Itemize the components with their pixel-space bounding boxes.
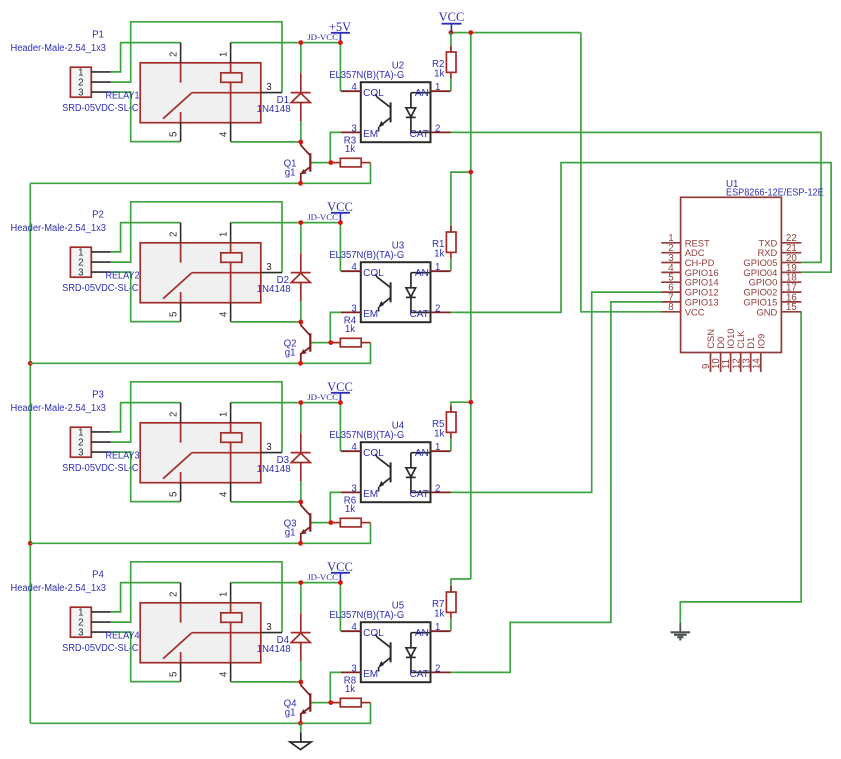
svg-text:4: 4 [219,491,230,497]
svg-text:3: 3 [78,628,83,639]
svg-text:3: 3 [266,622,271,633]
resistor R3 1k [331,162,340,164]
svg-text:Header-Male-2.54_1x3: Header-Male-2.54_1x3 [11,403,107,414]
svg-text:JD-VCC: JD-VCC [307,392,338,402]
svg-text:SRD-05VDC-SL-C: SRD-05VDC-SL-C [62,643,139,654]
svg-text:1N4148: 1N4148 [257,284,291,295]
svg-text:1: 1 [435,262,440,273]
svg-text:SRD-05VDC-SL-C: SRD-05VDC-SL-C [62,283,139,294]
connector P4 Header-Male-2.54_1x3 [70,607,91,637]
wire: VCC rail at top [451,32,581,34]
svg-text:P3: P3 [92,390,104,401]
junction nodes of channel 2 [298,220,303,225]
transistor Q4 [301,682,310,695]
wire: diode D3 anode node to transistor Q3 collector [300,403,302,434]
wire: header P1 pin1 to RELAY1 pin2 [111,43,181,72]
wire: RELAY2 pin4 to diode D2 cathode node [231,321,301,323]
svg-text:RELAY4: RELAY4 [106,631,141,642]
wire: diode D1 anode node to transistor Q1 collector [300,43,302,74]
svg-text:g1: g1 [285,527,296,538]
wire: Q2 base to resistor R4 [311,342,332,344]
svg-text:P2: P2 [92,210,104,221]
pin stubs of U2 [341,90,361,92]
svg-text:1N4148: 1N4148 [257,104,291,115]
U1 left pin 7 GPIO13 [661,301,680,303]
wire: resistor R7 bottom to opto U5 AN [450,618,452,632]
resistor R7 1k [450,586,452,592]
wire: opto U2 EM to Q1 base node [330,132,341,162]
svg-text:AN: AN [415,628,429,639]
svg-text:3: 3 [266,82,271,93]
wire: emitter rail of Q4 to left ground bus [30,722,300,724]
svg-text:3: 3 [266,262,271,273]
wire: VCC bus vertical x=471 [470,33,472,579]
node: VCC rail junctions [449,30,454,35]
U1 bottom pin 10 D0 [720,353,722,373]
pin stubs of RELAY3 [180,403,182,423]
wire: emitter rail of Q2 to left ground bus [30,362,300,364]
svg-text:EL357N(B)(TA)-G: EL357N(B)(TA)-G [329,610,404,621]
relay RELAY4 SRD-05VDC-SL-C [140,603,261,663]
U1 bottom pin 12 CLK [740,353,742,373]
diode D4 1N4148 [300,613,302,632]
svg-text:2: 2 [169,52,180,57]
svg-text:3: 3 [78,448,83,459]
svg-text:EL357N(B)(TA)-G: EL357N(B)(TA)-G [329,70,404,81]
wire: header P4 pin2 to RELAY4 pin3 [111,562,283,633]
wire: RELAY4 pin1 to JD-VCC rail [231,582,301,584]
U1 left pin 1 REST [661,242,680,244]
svg-text:JD-VCC: JD-VCC [307,572,338,582]
svg-text:JD-VCC: JD-VCC [307,212,338,222]
svg-text:EM: EM [363,669,378,680]
svg-text:1: 1 [219,232,230,237]
svg-text:P1: P1 [92,30,104,41]
wire: header P3 pin2 to RELAY3 pin3 [111,382,283,453]
wire: RELAY3 pin4 to diode D3 cathode node [231,501,301,503]
wire: header P3 pin3 to RELAY3 pin5 [111,452,181,502]
opto-coupler U5 EL357N(B)(TA)-G [361,622,431,682]
wire: resistor R1 bottom to opto U3 AN [450,258,452,272]
U1 left pin 8 VCC [661,311,680,313]
wire: RELAY3 pin1 to JD-VCC rail [231,402,301,404]
U1 right pin 17 GPIO02 [781,291,801,293]
connector P2 Header-Male-2.54_1x3 [70,247,91,277]
svg-text:Header-Male-2.54_1x3: Header-Male-2.54_1x3 [11,43,107,54]
svg-text:5: 5 [169,312,180,317]
U1 left pin 6 GPIO12 [661,291,680,293]
U1 left pin 5 GPIO14 [661,281,680,283]
wire: header P4 pin3 to RELAY4 pin5 [111,632,181,682]
svg-text:VCC: VCC [685,306,705,317]
wire: resistor R4 right end down to emitter rail [301,343,371,364]
opto-coupler U4 EL357N(B)(TA)-G [361,442,431,502]
wire: header P3 pin1 to RELAY3 pin2 [111,403,181,432]
wire: left ground bus [29,183,31,723]
svg-text:g1: g1 [285,347,296,358]
IC U1 ESP8266-12E/ESP-12E [681,197,782,352]
wire: VCC bus jog to resistor R1 top [451,172,471,232]
resistor R8 1k [331,702,340,704]
svg-text:VCC: VCC [439,10,465,24]
wire: opto U3 EM to Q2 base node [330,312,341,342]
svg-text:ESP8266-12E/ESP-12E: ESP8266-12E/ESP-12E [726,187,824,198]
svg-text:CAT: CAT [410,309,429,320]
wire: VCC bus jog to resistor R5 top [451,402,471,411]
wire: RELAY1 pin1 to JD-VCC rail [231,42,301,44]
svg-text:RELAY1: RELAY1 [106,91,140,102]
svg-text:1: 1 [219,412,230,417]
svg-text:SRD-05VDC-SL-C: SRD-05VDC-SL-C [62,463,139,474]
wire: diode D4 anode node to transistor Q4 collector [300,583,302,614]
wire: header P4 pin1 to RELAY4 pin2 [111,583,181,612]
wire: header P1 pin2 to RELAY1 pin3 [111,22,283,93]
wire: Q1 base to resistor R3 [311,162,332,164]
svg-text:2: 2 [169,232,180,237]
pin stubs of U3 [341,270,361,272]
LED inside U2 [411,92,430,94]
svg-text:1: 1 [219,592,230,597]
svg-text:1k: 1k [434,609,444,620]
svg-text:CAT: CAT [410,489,429,500]
svg-text:EM: EM [363,129,378,140]
svg-text:Header-Male-2.54_1x3: Header-Male-2.54_1x3 [11,583,107,594]
wire: emitter rail of Q1 to left ground bus [30,182,300,184]
diode D3 1N4148 [300,433,302,452]
pin stubs of U4 [341,450,361,452]
svg-text:1k: 1k [345,684,355,695]
photo-transistor inside U3 [375,274,390,288]
svg-text:AN: AN [415,88,429,99]
svg-text:CAT: CAT [410,129,429,140]
resistor R2 1k [450,33,452,52]
wire: U4 CAT to U1 GPIO12 (pin 6) [451,292,662,492]
relay RELAY2 SRD-05VDC-SL-C [140,243,261,303]
U1 right pin 21 RXD [781,252,801,254]
diode D1 1N4148 [300,73,302,92]
svg-text:2: 2 [169,412,180,417]
connector P1 Header-Male-2.54_1x3 [70,67,91,97]
wire: U1 GND (pin 15) to ground [680,312,801,623]
wire: U3 CAT to U1 GPIO04 (pin 19) [451,163,832,313]
wire: U2 CAT to U1 GPIO05 (pin 20) [451,132,822,262]
svg-text:1: 1 [435,622,440,633]
svg-text:4: 4 [219,671,230,677]
svg-text:14: 14 [751,358,762,369]
wire: header P2 pin3 to RELAY2 pin5 [111,272,181,322]
wire: VCC bus end jog to resistor R7 top [451,579,471,592]
U1 right pin 20 GPIO05 [781,262,801,264]
svg-text:8: 8 [668,302,673,313]
opto-coupler U3 EL357N(B)(TA)-G [361,262,431,322]
resistor R1 1k [450,226,452,232]
wire: header P2 pin2 to RELAY2 pin3 [111,202,283,273]
svg-text:EL357N(B)(TA)-G: EL357N(B)(TA)-G [329,430,404,441]
svg-text:4: 4 [351,622,357,633]
junction nodes of channel 3 [298,400,303,405]
svg-text:AN: AN [415,268,429,279]
LED inside U5 [411,632,430,634]
svg-text:1k: 1k [345,324,355,335]
resistor R5 1k [450,406,452,412]
resistor R4 1k [331,342,340,344]
svg-text:COL: COL [363,448,384,459]
svg-text:3: 3 [78,268,83,279]
wire: resistor R2 bottom to opto U2 AN [450,78,452,92]
wire: RELAY1 pin4 to diode D1 cathode node [231,141,301,143]
svg-text:15: 15 [786,302,797,313]
svg-text:4: 4 [219,131,230,137]
wire: resistor R6 right end down to emitter rail [301,523,371,544]
U1 right pin 18 GPIO0 [781,281,801,283]
pin stubs of RELAY4 [180,583,182,603]
svg-text:3: 3 [78,88,83,99]
svg-text:4: 4 [351,442,357,453]
ground symbol below Q4 (triangle style) [300,723,302,732]
svg-text:1: 1 [435,442,440,453]
connector P3 Header-Male-2.54_1x3 [70,427,91,457]
svg-text:IO9: IO9 [755,334,766,349]
U1 right pin 19 GPIO04 [781,271,801,273]
wire: resistor R8 right end down to emitter rail [301,703,371,724]
svg-text:RELAY3: RELAY3 [106,451,140,462]
transistor Q2 [301,322,310,335]
svg-text:2: 2 [435,123,440,134]
wire: diode D2 anode node to transistor Q2 collector [300,223,302,254]
diode D2 1N4148 [300,253,302,272]
svg-text:COL: COL [363,268,384,279]
svg-text:2: 2 [435,483,440,494]
svg-text:SRD-05VDC-SL-C: SRD-05VDC-SL-C [62,103,139,114]
svg-text:3: 3 [351,663,356,674]
svg-text:g1: g1 [285,707,296,718]
pin stubs of U5 [341,630,361,632]
svg-text:COL: COL [363,628,384,639]
svg-text:1k: 1k [345,504,355,515]
wire: Q3 base to resistor R6 [311,522,332,524]
svg-text:4: 4 [219,311,230,317]
svg-text:3: 3 [351,483,356,494]
U1 bottom pin 11 IO10 [730,353,732,373]
svg-text:GND: GND [756,306,777,317]
wire: JD-VCC rail to opto U3 COL [301,223,341,272]
svg-text:4: 4 [351,262,357,273]
svg-text:1k: 1k [345,144,355,155]
wire: resistor R5 bottom to opto U4 AN [450,438,452,452]
transistor Q3 [301,502,310,515]
wire: JD-VCC rail to opto U2 COL [301,43,341,92]
wire: header P2 pin1 to RELAY2 pin2 [111,223,181,252]
svg-text:EL357N(B)(TA)-G: EL357N(B)(TA)-G [329,250,404,261]
svg-text:AN: AN [415,448,429,459]
U1 bottom pin 9 CSN [710,353,712,373]
svg-text:RELAY2: RELAY2 [106,271,140,282]
photo-transistor inside U5 [375,634,390,648]
wire: resistor R3 right end down to emitter rail [301,163,371,184]
svg-text:CAT: CAT [410,669,429,680]
svg-text:3: 3 [351,123,356,134]
wire: JD-VCC rail to opto U4 COL [301,403,341,452]
pin stubs of RELAY1 [180,43,182,63]
svg-text:JD-VCC: JD-VCC [307,32,338,42]
svg-text:5: 5 [169,492,180,497]
wire: header P1 pin3 to RELAY1 pin5 [111,92,181,142]
svg-text:2: 2 [435,303,440,314]
U1 right pin 15 GND [781,311,801,313]
LED inside U4 [411,452,430,454]
wire: RELAY2 pin1 to JD-VCC rail [231,222,301,224]
photo-transistor inside U4 [375,454,390,468]
svg-text:1: 1 [219,52,230,57]
wire: emitter rail of Q3 to left ground bus [30,542,300,544]
svg-text:1k: 1k [434,429,444,440]
wire: U5 CAT to U1 GPIO13 (pin 7) [451,302,662,673]
U1 bottom pin 13 D1 [750,353,752,373]
svg-text:1N4148: 1N4148 [257,464,291,475]
svg-text:g1: g1 [285,167,296,178]
resistor R6 1k [331,522,340,524]
svg-text:1: 1 [435,82,440,93]
U1 right pin 22 TXD [781,242,801,244]
wire: JD-VCC rail to opto U5 COL [301,583,341,632]
wire: opto U5 EM to Q4 base node [330,672,341,702]
svg-text:3: 3 [351,303,356,314]
svg-text:4: 4 [351,82,357,93]
transistor Q1 [301,142,310,155]
svg-text:3: 3 [266,442,271,453]
wire: Q4 base to resistor R8 [311,702,332,704]
wire: opto U4 EM to Q3 base node [330,492,341,522]
svg-text:COL: COL [363,88,384,99]
U1 left pin 3 CH-PD [661,262,680,264]
wire: RELAY4 pin4 to diode D4 cathode node [231,681,301,683]
pin stubs of RELAY2 [180,223,182,243]
junction nodes of channel 1 [298,40,303,45]
node: ground bus taps [28,361,33,366]
svg-text:EM: EM [363,489,378,500]
svg-text:2: 2 [435,663,440,674]
opto-coupler U2 EL357N(B)(TA)-G [361,82,431,142]
svg-text:P4: P4 [92,570,104,581]
svg-text:EM: EM [363,309,378,320]
U1 right pin 16 GPIO15 [781,301,801,303]
LED inside U3 [411,272,430,274]
relay RELAY3 SRD-05VDC-SL-C [140,423,261,483]
U1 left pin 4 GPIO16 [661,271,680,273]
svg-text:1k: 1k [434,249,444,260]
photo-transistor inside U2 [375,94,390,108]
svg-text:5: 5 [169,672,180,677]
relay RELAY1 SRD-05VDC-SL-C [140,63,261,123]
svg-text:1N4148: 1N4148 [257,644,291,655]
ground symbol near U1 (earth style) [679,623,681,633]
svg-text:5: 5 [169,132,180,137]
svg-text:2: 2 [169,592,180,597]
svg-text:1k: 1k [434,69,444,80]
junction nodes of channel 4 [298,580,303,585]
U1 left pin 2 ADC [661,252,680,254]
wire: VCC rail down to U1 pin8 VCC [581,33,661,312]
U1 bottom pin 14 IO9 [760,353,762,373]
svg-text:Header-Male-2.54_1x3: Header-Male-2.54_1x3 [11,223,107,234]
